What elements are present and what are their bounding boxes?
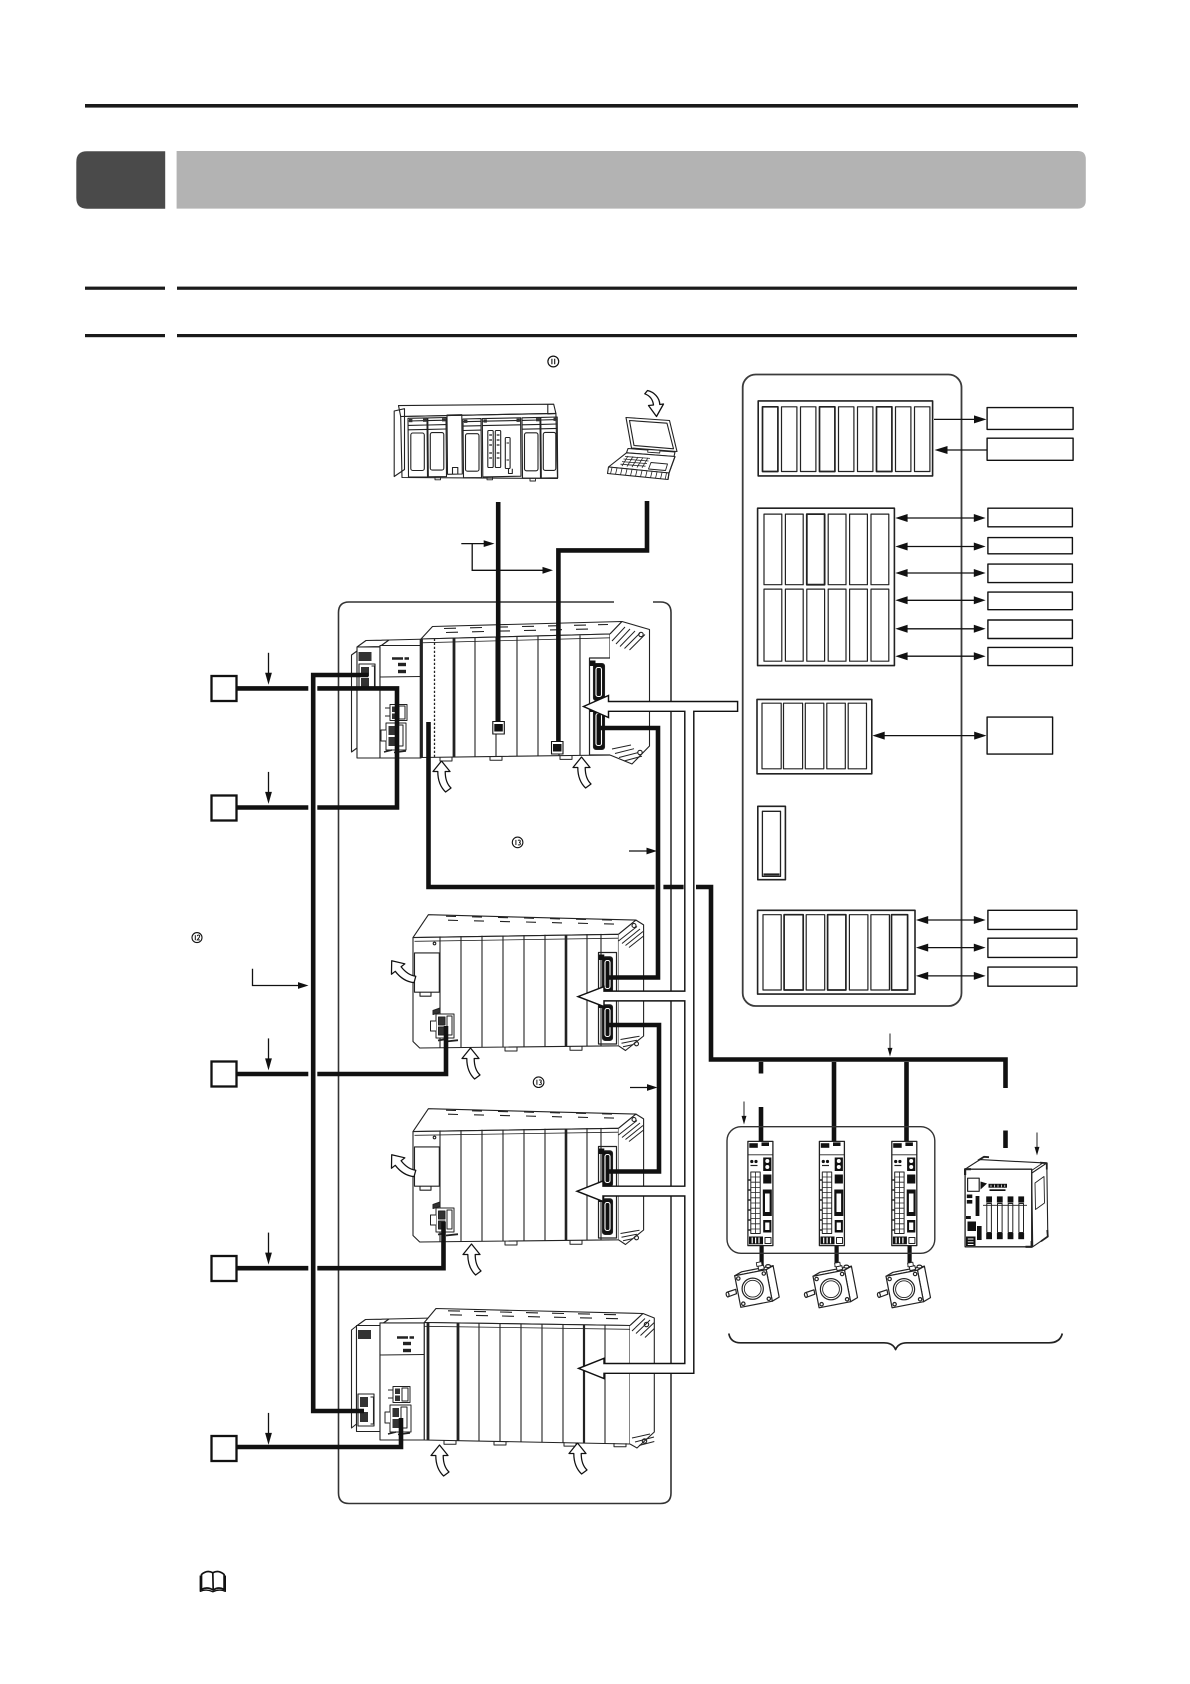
servopack 2 <box>819 1141 844 1245</box>
CPU upper connector <box>385 705 407 721</box>
group 4: single slat <box>758 806 786 879</box>
CPU front <box>380 1323 424 1440</box>
wire laptop down into rack1 <box>558 501 647 747</box>
bus drop 3 <box>904 1062 909 1147</box>
callout arrow to expansion cable 2 <box>630 1087 648 1089</box>
body front face <box>421 634 610 758</box>
wire square1 - square2 loop (breaks at wire A crossing) <box>222 688 308 807</box>
top tabs <box>444 625 608 633</box>
servo motor 1 <box>726 1262 779 1308</box>
callout arrow to laptop cable <box>472 544 543 571</box>
4 connector strips <box>983 1196 1027 1239</box>
left squares <box>212 676 237 1461</box>
servo motor 2 <box>804 1262 857 1308</box>
circled 13 (second) <box>533 1077 544 1088</box>
wire rack2 to rack3 (expansion 13) <box>607 1025 659 1172</box>
screen outer <box>626 418 677 452</box>
group5 double arrows and boxes <box>916 910 1077 986</box>
servopack 3 <box>892 1141 917 1245</box>
PS module front <box>357 647 380 758</box>
group2 double arrows and boxes <box>895 508 1072 665</box>
PS front <box>357 1326 381 1432</box>
group1 arrows and boxes <box>934 408 1073 461</box>
group3 double arrow and box <box>872 717 1052 754</box>
hinge bar <box>627 449 676 457</box>
PS module top <box>357 640 389 647</box>
top tabs <box>448 1311 618 1319</box>
wire PLC down into rack1 <box>496 502 501 726</box>
group 5: 7 slats <box>758 910 915 994</box>
body top face <box>421 622 622 640</box>
left detail column <box>966 1195 982 1247</box>
base deck <box>609 453 676 473</box>
machine controller group box (rounded, with gap in top edge) <box>339 602 672 1504</box>
left mounting plate <box>394 409 404 477</box>
dashed continuation to YASKAWA unit <box>1003 1131 1008 1149</box>
curved hook arrows <box>433 761 451 792</box>
CPU LED marks <box>392 657 409 660</box>
YASKAWA stepper unit <box>965 1157 1048 1247</box>
circled 11 <box>548 356 559 367</box>
module 1 <box>408 418 428 477</box>
CPU module top <box>380 639 430 647</box>
PS lower connector (wire A entry) <box>358 1394 374 1426</box>
group 1: 9 slats <box>758 401 932 476</box>
CPU lower connector <box>381 723 406 753</box>
bus drop stub 1 (with break) <box>759 1062 764 1074</box>
PS connector detail <box>359 652 372 661</box>
wire square3 to rack2 serial <box>222 1072 308 1077</box>
CPU module top <box>380 1318 433 1326</box>
rule 3 long <box>177 334 1077 337</box>
wire D: rack1 module down to servo bus (breaks at crossings) <box>429 722 655 887</box>
module 4 <box>463 419 482 478</box>
middle connector section <box>482 418 521 477</box>
top rule <box>85 104 1078 108</box>
down arrows over the five left squares' wires <box>265 653 272 685</box>
small connector at laptop wire end <box>552 742 564 755</box>
module 2 <box>428 418 447 477</box>
laptop <box>608 391 678 480</box>
CPU upper connector <box>388 1387 410 1403</box>
CPU LED marks <box>397 1336 414 1339</box>
bus drop 2 <box>832 1062 837 1147</box>
rule 2 short <box>85 287 165 290</box>
wire square4 to rack3 serial <box>222 1266 308 1271</box>
slats <box>475 635 580 756</box>
front face <box>401 413 558 478</box>
screen inner <box>630 421 674 449</box>
logo triangle <box>981 1182 988 1190</box>
keyboard hatch <box>621 456 651 468</box>
front skirt hatched <box>608 467 670 480</box>
far-left thin plate <box>352 1326 357 1428</box>
chapter number dark box <box>76 151 165 208</box>
rule 2 long <box>177 287 1077 290</box>
section title grey bar <box>177 151 1086 209</box>
bottom small feet <box>440 755 572 761</box>
white outline arrow network: arrows into rack1..rack4 + vertical channel <box>577 696 738 1379</box>
circled 12 <box>192 933 202 943</box>
module 3 (blank) <box>447 415 462 475</box>
open book icon <box>200 1571 225 1591</box>
body top face <box>424 1309 643 1326</box>
wire rack1 to rack2 (expansion 13) <box>599 728 658 978</box>
slats <box>479 1323 605 1443</box>
end plate <box>630 1314 654 1449</box>
curly brace under servo group <box>729 1334 1063 1350</box>
module 5 <box>522 417 541 478</box>
wire A: rack1 PS to rack4 PS (12) <box>313 675 368 1411</box>
end plate <box>610 622 650 765</box>
small connector at PLC wire end <box>493 722 505 735</box>
servopack 1 <box>748 1141 773 1245</box>
top face <box>965 1160 1047 1174</box>
group 2: 2 rows x 6 slats <box>758 508 895 665</box>
callout arrow to PLC cable <box>461 543 484 545</box>
right edge of base <box>668 457 675 480</box>
down arrow at servo group <box>742 1102 747 1125</box>
PS module top <box>357 1319 390 1326</box>
module 6 <box>541 417 558 478</box>
CPU lower connector <box>385 1405 411 1435</box>
motor wires <box>759 1246 763 1266</box>
display window <box>968 1178 980 1191</box>
corner marks <box>965 1169 971 1175</box>
wire square5 to rack4 CPU <box>222 1418 401 1447</box>
rule 3 short <box>85 334 165 337</box>
callout pointer for 12 cable <box>253 969 299 986</box>
optical module right with black bars <box>590 658 613 755</box>
curved arrow above laptop <box>645 391 664 417</box>
touchpad <box>649 463 668 471</box>
body front face <box>424 1323 630 1445</box>
down arrow into MECHATROLINK bus <box>888 1034 893 1057</box>
group 3: 5 slats <box>757 699 872 773</box>
callout arrow to expansion cable 1 <box>629 850 647 852</box>
far-left thin plate <box>352 651 358 752</box>
front face <box>965 1169 1032 1247</box>
circled 13 (first) <box>512 837 523 848</box>
top face <box>399 404 556 416</box>
bottom small feet <box>444 1440 626 1446</box>
PLC rack (top left device) <box>394 404 558 481</box>
right face <box>1032 1163 1048 1247</box>
servo group rounded box <box>727 1127 935 1254</box>
bottom feet <box>435 477 536 481</box>
panel rounded rect <box>743 375 962 1007</box>
servo motor 3 <box>877 1262 930 1308</box>
CPU module front <box>380 646 421 759</box>
down arrow at YASKAWA unit <box>1035 1133 1040 1156</box>
